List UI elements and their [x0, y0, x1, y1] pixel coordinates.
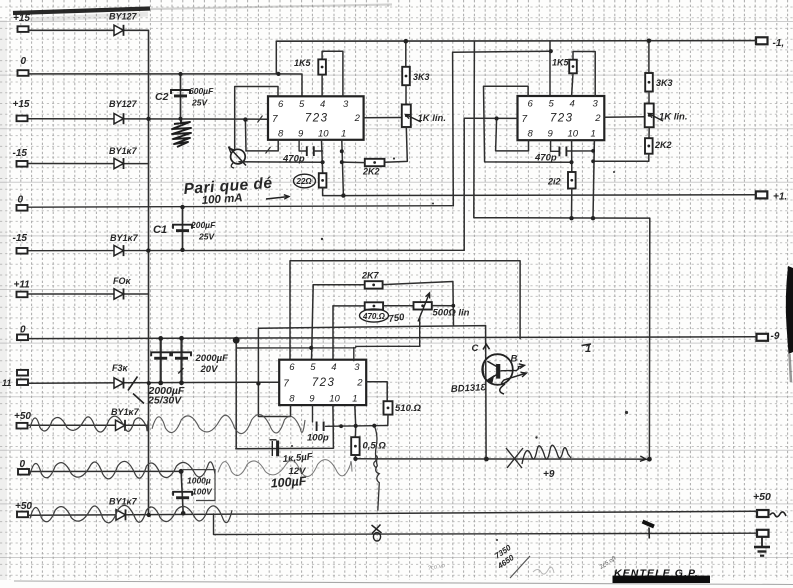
resistor 2K7: [365, 281, 383, 288]
wire emitter rail: [356, 458, 650, 460]
svg-text:B: B: [511, 354, 518, 365]
wire C470p to U2 pin1: [567, 150, 593, 152]
svg-text:4: 4: [331, 362, 336, 373]
wire 470ohm row: [333, 305, 365, 307]
wire link +50 rail to lower rail: [214, 514, 758, 535]
scribbled-out component below C2: [172, 120, 191, 147]
svg-text:200µF: 200µF: [190, 220, 216, 230]
wire 470 to pot 500: [383, 305, 413, 307]
waveform doodle +50 bottom row: [30, 505, 232, 522]
label oval 22 ohm: [294, 174, 316, 188]
node capB top: [179, 336, 184, 341]
node bus +15: [146, 117, 150, 121]
svg-text:2: 2: [594, 113, 601, 124]
tick on U1 pin7 wire: [258, 116, 263, 123]
capacitor 1.5uF: [270, 440, 278, 457]
node C1 top: [180, 205, 184, 209]
wire pot to 2K2v (U2): [648, 127, 650, 138]
waveform doodle +50 row: [30, 416, 148, 432]
resistor 1K5 (U1): [318, 59, 326, 74]
svg-text:3: 3: [343, 99, 349, 110]
svg-text:1K lin.: 1K lin.: [418, 113, 447, 124]
svg-text:5: 5: [310, 362, 316, 373]
svg-text:-15: -15: [13, 148, 28, 159]
node capA top: [158, 336, 163, 341]
terminal -1 output (right top): [756, 37, 768, 44]
svg-text:1: 1: [341, 128, 346, 139]
svg-text:9: 9: [309, 394, 315, 405]
svg-text:2K2: 2K2: [362, 167, 380, 177]
waveform doodle 0 row right: [218, 460, 352, 477]
wire U1 pin5 riser top link: [275, 41, 277, 74]
svg-text:25/30V: 25/30V: [147, 395, 182, 407]
svg-text:2K7: 2K7: [361, 271, 380, 281]
wire pot to 2K2 corner (U1): [385, 127, 408, 162]
node 0.5 bottom: [353, 457, 357, 461]
terminal spare (unlabelled): [17, 370, 28, 376]
potentiometer 500 ohm lin: [414, 302, 432, 309]
diode BY127 (D7): [116, 420, 126, 431]
terminal 0 (second): [17, 205, 28, 211]
svg-text:2000µF: 2000µF: [195, 353, 229, 364]
svg-text:1K5: 1K5: [294, 58, 312, 68]
wire U3 pin5 riser: [312, 285, 314, 361]
svg-text:3K3: 3K3: [413, 72, 430, 82]
wire pot 500 to corner: [432, 305, 453, 307]
X mark on test lead: [372, 525, 382, 534]
scan artifact top edge smear: [13, 5, 392, 21]
capacitor C2 600uF: [171, 90, 190, 97]
capacitor 470p (U2): [559, 147, 566, 157]
terminal 11: [17, 379, 28, 385]
wire U1 pin10 vertical: [322, 140, 323, 173]
terminal +50 (first): [17, 423, 28, 429]
wire C2 stem: [180, 74, 182, 119]
svg-text:0: 0: [20, 325, 26, 336]
terminal 0 (first): [18, 70, 29, 76]
node U3 pin1/0.5: [354, 424, 358, 428]
diode FOK (D5): [114, 289, 124, 300]
diode BY127 (D8): [116, 509, 126, 520]
node 100p right: [339, 424, 343, 428]
node capB bottom: [179, 380, 184, 385]
svg-text:-15: -15: [13, 233, 28, 244]
svg-text:C: C: [472, 343, 479, 354]
wire U2 1K5 bracket to pin3: [573, 52, 595, 97]
wire 0 fourth: [29, 470, 181, 472]
wavy test lead down from node: [374, 426, 379, 511]
wire 1.5uF row: [236, 426, 334, 448]
scribble on emitter rail: [506, 445, 571, 468]
wire U3 pin4 riser: [332, 306, 334, 361]
terminal +11: [17, 292, 28, 298]
resistor 2K2 (U1): [365, 159, 385, 166]
wire left bus vertical: [148, 119, 150, 515]
stray specks: [291, 157, 628, 541]
svg-text:100V: 100V: [192, 487, 213, 497]
wire C470p to U1 pin10 vertical: [315, 150, 323, 152]
op-amp regulator U2 (723): [518, 96, 605, 140]
scan artifact right edge black bar: [786, 266, 793, 354]
node U1 pin1 a: [340, 149, 344, 153]
svg-text:3: 3: [593, 99, 599, 110]
svg-text:470p: 470p: [282, 154, 305, 165]
svg-text:+15: +15: [13, 99, 30, 110]
svg-text:9: 9: [548, 129, 554, 140]
Q mark on test lead: [373, 533, 380, 541]
node pin7 U3 riser: [256, 381, 260, 385]
svg-text:6: 6: [289, 362, 295, 373]
svg-text:+50: +50: [753, 491, 771, 503]
capacitor C1 200uF: [173, 225, 192, 232]
svg-text:F3κ: F3κ: [112, 363, 129, 373]
polarity tick on cap B: [178, 368, 183, 374]
wire 0-rail riser to U2 pin5: [453, 51, 551, 206]
wire U2 pin7 drop to -15 rail: [463, 118, 465, 250]
node +1 rail start: [341, 193, 345, 197]
wire 11 rail to pin7 of U3: [29, 382, 280, 383]
node C2 bottom: [178, 117, 182, 121]
wire U1 pin8 loop: [246, 140, 278, 151]
svg-text:2: 2: [354, 113, 361, 124]
resistor 510 ohm: [384, 401, 393, 414]
svg-text:10: 10: [318, 128, 329, 139]
svg-text:100p: 100p: [307, 433, 329, 444]
svg-text:+50: +50: [15, 501, 32, 512]
wire 0 rail third: [29, 337, 757, 339]
svg-text:-9: -9: [771, 331, 780, 342]
svg-text:11: 11: [2, 378, 11, 388]
svg-text:9: 9: [298, 128, 304, 139]
svg-text:+1.: +1.: [773, 192, 787, 203]
wire +1 rail: [343, 194, 755, 197]
wire U2 pin7/8 loop: [496, 119, 529, 151]
transistor Q1 BD131: [482, 344, 526, 394]
node trimmer/pin10 U1: [321, 160, 325, 164]
wire 1K5 to U2 pin4: [572, 73, 573, 96]
wire -15 rail: [29, 249, 465, 251]
node bus +50 bottom: [147, 513, 151, 517]
wire 3K3 to pot (U1): [405, 85, 407, 104]
wire 22ohm to +1 rail: [323, 188, 344, 196]
wire U2 pin2 to pot: [604, 116, 645, 118]
svg-text:+11: +11: [14, 280, 31, 291]
svg-text:0: 0: [18, 195, 24, 206]
resistor 0.5 ohm: [351, 437, 359, 455]
svg-text:BD131Ɛ: BD131Ɛ: [451, 382, 488, 395]
svg-text:8: 8: [278, 128, 284, 139]
svg-text:?ςο.νο: ?ςο.νο: [427, 563, 446, 572]
hook on emitter rail: [374, 455, 378, 468]
svg-text:8: 8: [528, 129, 534, 140]
svg-text:7: 7: [272, 114, 278, 125]
tick mark above lower rail: [643, 522, 655, 527]
terminal +15 (top input): [18, 26, 29, 32]
node C1 bottom: [180, 248, 184, 252]
resistor 2K2 (U2 pin10): [568, 172, 576, 189]
diode F3K (D6): [114, 378, 124, 389]
diode BY127 (D1): [114, 25, 124, 36]
svg-text:FOκ: FOκ: [113, 276, 131, 286]
node 218 rail b: [591, 216, 595, 220]
svg-text:723: 723: [550, 113, 574, 125]
terminal 0 (third): [17, 335, 28, 341]
node emitter rail end: [647, 457, 652, 462]
terminal -15 (first): [17, 161, 28, 167]
wire 3K3 chain top (U2): [648, 41, 650, 73]
svg-text:C2: C2: [155, 91, 169, 103]
pencil slash under numbers: [510, 556, 530, 578]
node 500pot corner: [451, 304, 455, 308]
wire 1K5 to U1 pin4: [321, 75, 323, 97]
resistor 3K3 (U2 chain): [645, 73, 653, 92]
wire +50 first to bus: [29, 424, 149, 426]
wire -15 first to bus: [29, 163, 149, 165]
diode BY127 (D3): [114, 158, 124, 169]
wire U3 pin2 to 510: [366, 382, 387, 402]
node 3K3 U2 top: [647, 39, 652, 44]
wire U2 pin6 bracket: [484, 86, 572, 162]
node U1 pin1 b: [340, 160, 344, 164]
capacitor 2000uF B plates: [172, 352, 191, 359]
terminal +50 (second): [17, 512, 28, 518]
wire -1 rail drop to lower net: [474, 41, 650, 459]
wire U1 1K5 top bracket to pin3: [322, 51, 343, 96]
capacitor 2000uF A stem: [160, 338, 162, 383]
node U2 pin7 loop: [495, 116, 499, 120]
node U2 pin10: [569, 160, 573, 164]
svg-text:0: 0: [21, 56, 27, 67]
op-amp regulator U3 (723): [279, 360, 366, 405]
waveform doodle +50 row right part: [152, 415, 305, 434]
node 1000u bottom: [181, 511, 186, 516]
title underline bar: [613, 576, 711, 583]
svg-text:20V: 20V: [200, 364, 219, 375]
wire U1 pin7 junction drop: [244, 120, 247, 151]
wire U2 pin9 to C470p: [551, 140, 559, 151]
svg-text:-1,: -1,: [773, 38, 785, 49]
capacitor 100p: [317, 422, 324, 432]
svg-text:1K lin.: 1K lin.: [659, 112, 688, 123]
svg-text:6: 6: [278, 99, 284, 110]
svg-text:470p: 470p: [534, 153, 557, 164]
svg-text:3K3: 3K3: [656, 78, 673, 88]
terminal output bottom right: [757, 530, 769, 537]
svg-text:6: 6: [528, 99, 534, 110]
terminal -15 (second): [17, 248, 28, 254]
ground symbol: [754, 537, 770, 556]
svg-text:750: 750: [388, 312, 406, 325]
svg-text:7: 7: [283, 378, 289, 389]
wire 2K7 to corner: [383, 282, 454, 326]
wire big node drop: [235, 339, 237, 449]
wire U1 pin5 riser: [278, 74, 302, 96]
wire 0 rail second: [29, 206, 454, 208]
svg-text:1: 1: [591, 129, 596, 140]
terminal +15 (second): [17, 116, 28, 122]
wire 426 node row: [326, 425, 388, 428]
wiper arrow 500 lin: [418, 293, 430, 322]
diode BY127 (D2): [114, 113, 124, 124]
terminal +1 output (right): [756, 191, 768, 198]
wire U1 pin2 to pot: [364, 117, 402, 119]
wire U3 pin7 riser to transistor: [258, 326, 486, 458]
wire U2 pin10 vertical: [571, 140, 573, 172]
svg-text:510.Ω: 510.Ω: [395, 403, 421, 414]
svg-text:+9: +9: [543, 469, 555, 480]
wire 2K2 to net: [571, 189, 573, 219]
svg-text:100µF: 100µF: [270, 474, 307, 490]
terminal -9 output (right): [757, 334, 769, 341]
node 1000u top: [179, 469, 184, 474]
resistor 470 ohm: [365, 302, 383, 309]
trimmer symbol (current limit, U1): [229, 147, 247, 169]
wire U1 pin1 vertical: [342, 140, 344, 196]
box around 1000u label: [183, 470, 215, 501]
page footer rule: [14, 581, 793, 585]
arrowhead into node on emitter rail: [640, 456, 646, 461]
wire U1 pin6 bracket: [235, 87, 278, 150]
svg-text:4: 4: [320, 99, 325, 110]
resistor 22ohm (U1 pin10): [319, 173, 327, 187]
svg-text:22Ω: 22Ω: [296, 177, 313, 186]
diode BY127 (D4): [114, 245, 124, 256]
svg-text:2ί2: 2ί2: [547, 177, 561, 187]
svg-text:BY1κ7: BY1κ7: [109, 146, 138, 156]
svg-text:BY127: BY127: [109, 99, 138, 109]
capacitor 1000u plates: [173, 492, 192, 499]
wire trimmer to U1 pin10 node: [239, 161, 323, 163]
arrow on note: [266, 197, 289, 200]
wire U3 pin1 stub: [354, 405, 357, 437]
node U2 pin5 link: [549, 49, 553, 53]
wire C1 stem: [182, 207, 184, 250]
wire U1 pin9 to C470p: [299, 140, 306, 151]
capacitor 2000uF B stem: [180, 338, 182, 383]
svg-text:5: 5: [549, 99, 555, 110]
capacitor 2000uF A plates: [151, 352, 170, 359]
wire U2 pin7 to drop: [464, 117, 517, 119]
node 218 rail a: [569, 216, 573, 220]
node wiper/pin5 U3: [309, 346, 313, 350]
svg-text:600µF: 600µF: [189, 86, 214, 96]
wire node wiper 347: [237, 318, 420, 348]
wire U2 pin5 riser: [549, 41, 551, 96]
wire 510 to 426 node: [387, 415, 389, 426]
wiper arrow 1K lin (U1): [406, 115, 422, 123]
wire 0 rail first: [29, 73, 279, 75]
node bus 11: [147, 381, 151, 385]
svg-text:2: 2: [356, 377, 363, 388]
wire U2 pin1 vertical: [593, 140, 594, 218]
svg-text:1: 1: [352, 394, 357, 405]
slash after D6: [128, 377, 144, 404]
faint scribble near numbers: [533, 567, 554, 574]
wire U3 pin10 stub: [332, 405, 334, 426]
wire U3 top loop: [290, 261, 520, 361]
svg-text:0: 0: [20, 459, 26, 470]
wire U3 pin7-8 loop: [258, 384, 290, 417]
resistor 2K2 lower (U2 chain): [645, 138, 653, 154]
node 3K3 U1 top: [404, 39, 409, 44]
node capA bottom: [158, 381, 163, 386]
op-amp regulator U1 (723): [268, 96, 364, 140]
node U1 pin7: [243, 117, 247, 121]
potentiometer 1K lin (U1): [402, 105, 411, 128]
svg-text:BY127: BY127: [109, 12, 138, 22]
scribble next to +50 output: [770, 512, 786, 517]
resistor 1K5 (U2): [569, 60, 577, 74]
node big 0-rail: [233, 337, 240, 344]
svg-text:+15: +15: [13, 13, 30, 24]
svg-text:723: 723: [312, 377, 336, 389]
waveform doodle 0 row: [30, 461, 215, 478]
node wavy lead: [372, 424, 376, 428]
wire 2K7 row: [313, 284, 365, 286]
svg-text:8: 8: [289, 394, 295, 405]
svg-text:25V: 25V: [198, 232, 215, 242]
wire 3K3 to pot (U2): [648, 92, 650, 104]
svg-text:4: 4: [570, 99, 575, 110]
resistor 3K3 (U1 chain): [402, 67, 410, 85]
tick on U1 pin8 loop: [266, 147, 271, 154]
svg-text:+50: +50: [14, 411, 31, 422]
svg-text:BY1κ7: BY1κ7: [110, 233, 139, 243]
label oval 470 ohm: [360, 309, 389, 322]
svg-text:500Ω lin: 500Ω lin: [433, 308, 470, 319]
node U2 pin1 b: [591, 159, 595, 163]
wire 2K2 to U1 pin1 node: [342, 161, 365, 164]
wire U3 pin9 stub: [312, 405, 314, 422]
svg-text:25V: 25V: [191, 98, 208, 108]
wire U3 pin3 riser: [353, 348, 355, 361]
svg-text:5: 5: [299, 99, 305, 110]
svg-text:0,5 Ω: 0,5 Ω: [363, 441, 387, 452]
overbar of -1 mark: [582, 344, 592, 346]
capacitor 1000u stem: [181, 471, 183, 513]
svg-text:10: 10: [329, 394, 340, 405]
svg-text:1K5: 1K5: [552, 58, 570, 68]
potentiometer 1K lin (U2): [645, 104, 654, 128]
svg-text:2K2: 2K2: [654, 140, 672, 150]
wire +15 top to diode bus: [29, 30, 149, 119]
scan artifact left margin smudge: [0, 20, 7, 580]
svg-text:C1: C1: [153, 224, 167, 236]
svg-text:3: 3: [354, 362, 360, 373]
wire 3K3 chain top (U1): [405, 41, 407, 67]
svg-text:470.Ω: 470.Ω: [362, 312, 386, 321]
svg-text:KENTELE G.P.: KENTELE G.P.: [614, 568, 699, 580]
node U2 pin1 a: [591, 149, 595, 153]
wire +11 to bus: [29, 293, 149, 295]
svg-text:7: 7: [522, 114, 528, 125]
svg-text:723: 723: [305, 113, 329, 125]
svg-text:BY1κ7: BY1κ7: [111, 407, 140, 417]
wire +15 rail to pin7 of U1: [29, 118, 268, 121]
node 0/U1 pin5: [276, 72, 280, 76]
node C2 top: [178, 72, 182, 76]
terminal 0 (fourth): [18, 469, 29, 475]
wiper arrow 1K lin (U2): [649, 114, 664, 122]
wire top -1 rail: [276, 40, 756, 43]
wire +50 bottom rail: [30, 511, 758, 515]
svg-text:10: 10: [568, 129, 579, 140]
wire 0.5 to emitter rail: [354, 455, 356, 459]
wire 2K2 chain to U2 pin1: [593, 154, 649, 162]
node bus -15: [146, 248, 150, 252]
terminal +50 output (right): [757, 510, 769, 517]
node transistor emitter: [484, 457, 489, 462]
